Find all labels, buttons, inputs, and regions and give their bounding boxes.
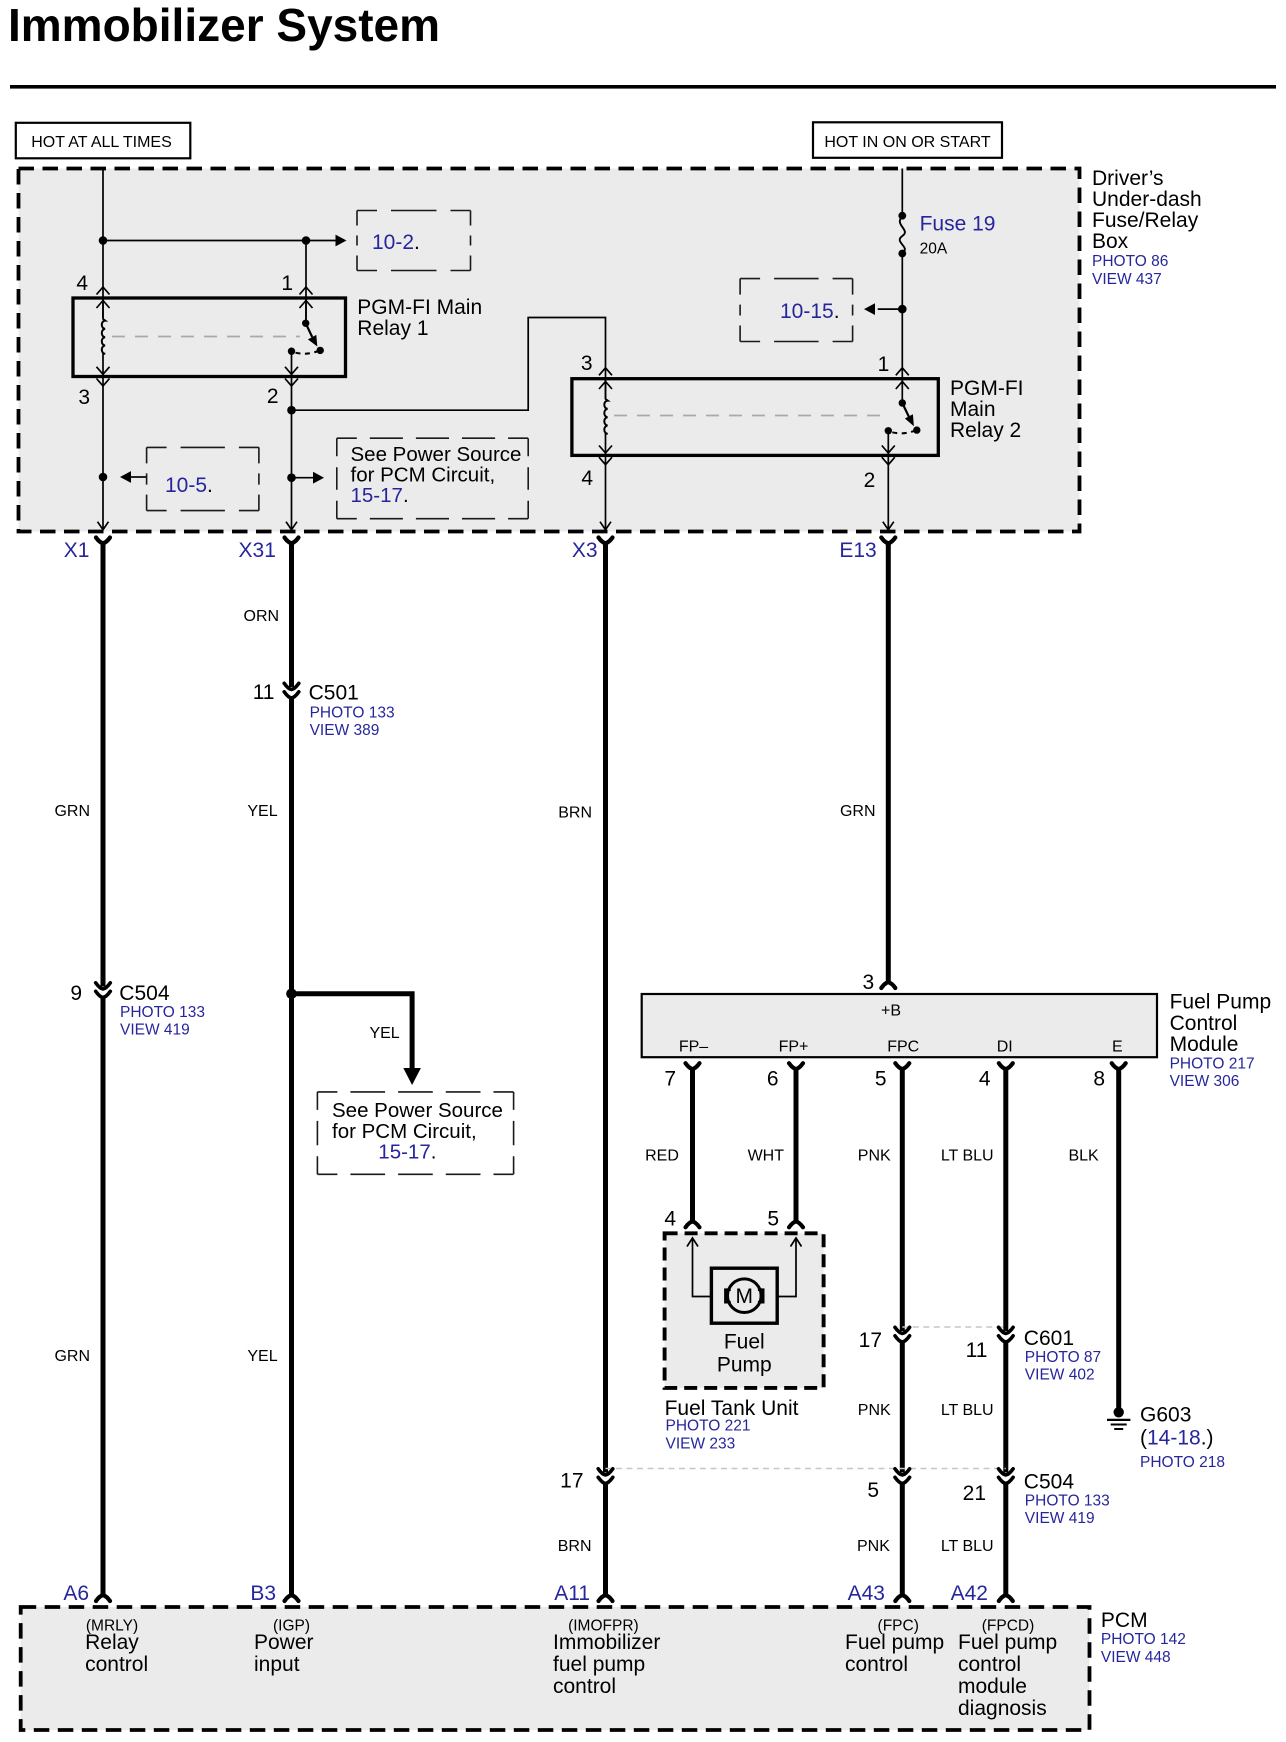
PCM pin (IMOFPR) Immobilizer fuel pump control	[553, 1618, 660, 1699]
svg-text:YEL: YEL	[247, 803, 277, 820]
svg-text:E13: E13	[839, 539, 876, 562]
title rule	[10, 85, 1276, 89]
fuse/relay box name label	[1092, 167, 1202, 288]
svg-text:module: module	[958, 1675, 1027, 1698]
svg-text:4: 4	[76, 272, 88, 295]
svg-text:1: 1	[281, 272, 293, 295]
svg-text:Relay: Relay	[85, 1631, 139, 1654]
svg-text:(14-18.): (14-18.)	[1140, 1427, 1214, 1450]
svg-text:GRN: GRN	[54, 1348, 90, 1365]
relay 2 coil feed wires	[605, 379, 607, 400]
svg-text:21: 21	[963, 1482, 986, 1505]
svg-text:VIEW 419: VIEW 419	[1025, 1510, 1095, 1527]
svg-text:YEL: YEL	[247, 1348, 277, 1365]
node label HOT AT ALL TIMES	[16, 123, 191, 159]
svg-text:BRN: BRN	[558, 805, 592, 822]
svg-text:9: 9	[70, 982, 82, 1005]
svg-text:Immobilizer: Immobilizer	[553, 1631, 660, 1654]
PCM pin (FPCD) Fuel pump control module diagnosis	[958, 1618, 1057, 1721]
svg-text:HOT AT ALL TIMES: HOT AT ALL TIMES	[31, 134, 172, 151]
relay 2 mechanical link (dashed)	[614, 415, 884, 417]
svg-text:VIEW 419: VIEW 419	[120, 1022, 190, 1039]
tank pin 5 male arrow	[791, 1238, 802, 1247]
node junction dot for 10-5 branch	[99, 473, 108, 482]
svg-text:Fuel: Fuel	[724, 1331, 765, 1354]
svg-text:GRN: GRN	[54, 803, 90, 820]
svg-text:DI: DI	[997, 1039, 1013, 1056]
connector C504 labels	[119, 982, 205, 1039]
ground G603 labels	[1140, 1404, 1225, 1472]
wire: C501 down to B3 (YEL)	[289, 696, 294, 1597]
arrow into See Power Source box (lower)	[403, 1068, 421, 1085]
connector C504 chevrons on IMOFPR wire	[598, 1469, 613, 1484]
relay 2 pin 1 connector chevrons	[896, 368, 909, 389]
svg-text:VIEW 437: VIEW 437	[1092, 271, 1162, 288]
svg-text:C601: C601	[1024, 1327, 1074, 1350]
relay 1 name label	[357, 296, 482, 340]
svg-text:Pump: Pump	[717, 1353, 772, 1376]
svg-text:Power: Power	[254, 1631, 314, 1654]
connector C601 labels	[1024, 1327, 1101, 1384]
svg-text:PHOTO 221: PHOTO 221	[666, 1418, 751, 1435]
fuel pump label	[717, 1331, 772, 1377]
wire: fuse to relay 2 pin 1	[901, 254, 903, 379]
svg-text:PHOTO 86: PHOTO 86	[1092, 253, 1168, 270]
svg-text:5: 5	[867, 1479, 879, 1502]
wire: branch to page ref 10-2	[103, 240, 336, 242]
svg-text:3: 3	[78, 386, 90, 409]
wire: X31 to C501 (ORN)	[289, 542, 294, 688]
svg-text:control: control	[553, 1675, 616, 1698]
svg-text:ORN: ORN	[244, 608, 280, 625]
component: PCM enclosure	[21, 1607, 1090, 1730]
svg-text:6: 6	[767, 1068, 779, 1091]
svg-text:for PCM Circuit,: for PCM Circuit,	[332, 1120, 477, 1143]
Driver's Under-dash Fuse/Relay Box (dashed enclosure)	[19, 169, 1080, 532]
svg-text:17: 17	[859, 1329, 882, 1352]
wire: E13 down to fuel pump control module +B (GRN)	[886, 542, 891, 983]
svg-text:PCM: PCM	[1101, 1609, 1148, 1632]
svg-text:2: 2	[267, 385, 279, 408]
op: PGM-FI Main Relay 1 body	[73, 298, 346, 377]
svg-text:FP–: FP–	[679, 1039, 708, 1056]
svg-text:control: control	[85, 1653, 148, 1676]
svg-text:PHOTO 218: PHOTO 218	[1140, 1454, 1225, 1471]
svg-text:Fuse 19: Fuse 19	[920, 213, 996, 236]
svg-text:C501: C501	[309, 682, 359, 705]
svg-text:15-17.: 15-17.	[378, 1141, 436, 1164]
fork connector at tank pin 4	[686, 1222, 700, 1228]
node junction dot relay1 pin2 to relay2 coil	[287, 406, 296, 415]
svg-text:WHT: WHT	[748, 1148, 785, 1165]
svg-text:10-15.: 10-15.	[780, 300, 840, 323]
svg-text:20A: 20A	[920, 241, 948, 258]
svg-text:PHOTO 87: PHOTO 87	[1025, 1349, 1101, 1366]
svg-text:VIEW 306: VIEW 306	[1170, 1073, 1240, 1090]
svg-text:BLK: BLK	[1068, 1148, 1099, 1165]
PCM pin (MRLY) Relay control	[85, 1618, 148, 1677]
wire: tank pin 4 to motor	[693, 1239, 727, 1297]
tank pin 4 male arrow	[687, 1238, 698, 1247]
fork connectors below module pins	[686, 1063, 700, 1069]
svg-text:LT BLU: LT BLU	[941, 1538, 994, 1555]
svg-text:4: 4	[979, 1068, 991, 1091]
svg-text:Driver’s: Driver’s	[1092, 167, 1164, 190]
svg-text:FP+: FP+	[779, 1039, 809, 1056]
node junction dot on feed	[99, 236, 108, 245]
svg-text:+B: +B	[881, 1003, 901, 1020]
svg-text:E: E	[1112, 1039, 1123, 1056]
node junction dot above relay 1 pin 1	[302, 236, 311, 245]
svg-text:Relay 2: Relay 2	[950, 419, 1021, 442]
svg-text:G603: G603	[1140, 1404, 1191, 1427]
node junction dot YEL branch	[286, 989, 297, 1000]
svg-text:PGM-FI: PGM-FI	[950, 377, 1024, 400]
svg-text:VIEW 402: VIEW 402	[1025, 1367, 1095, 1384]
svg-text:PNK: PNK	[858, 1148, 891, 1165]
svg-text:HOT IN ON OR START: HOT IN ON OR START	[824, 134, 990, 151]
op: Fuel Pump Control Module body	[642, 994, 1157, 1057]
svg-text:fuel pump: fuel pump	[553, 1653, 645, 1676]
svg-text:15-17.: 15-17.	[351, 484, 409, 507]
svg-text:Fuse/Relay: Fuse/Relay	[1092, 209, 1199, 232]
svg-text:10-2.: 10-2.	[372, 231, 420, 254]
page ref box 10-2	[357, 211, 471, 271]
svg-text:8: 8	[1093, 1068, 1105, 1091]
wire: 10-2 junction down to relay 1 pin 1	[305, 241, 307, 324]
wire: FPC down to C601 (PNK)	[900, 1068, 905, 1332]
svg-text:A42: A42	[951, 1582, 988, 1605]
svg-text:diagnosis: diagnosis	[958, 1697, 1047, 1720]
op: PGM-FI Main Relay 2 body	[572, 379, 938, 456]
svg-text:7: 7	[664, 1068, 676, 1091]
ground G603	[1107, 1407, 1130, 1429]
svg-text:A6: A6	[63, 1582, 89, 1605]
relay 2 switch	[885, 379, 921, 456]
svg-text:VIEW 389: VIEW 389	[310, 722, 380, 739]
node junction dot for 10-15 branch	[898, 305, 907, 314]
relay 1 switch	[288, 298, 324, 377]
svg-text:Fuel pump: Fuel pump	[845, 1631, 944, 1654]
svg-text:A11: A11	[554, 1582, 590, 1605]
wire: C504 to A42 (LT BLU)	[1003, 1482, 1008, 1597]
svg-text:11: 11	[253, 681, 275, 704]
svg-text:RED: RED	[645, 1148, 679, 1165]
relay 1 mechanical link (dashed)	[112, 336, 300, 338]
svg-text:Under-dash: Under-dash	[1092, 188, 1202, 211]
svg-text:Relay 1: Relay 1	[357, 317, 428, 340]
relay 2 name label	[950, 377, 1024, 442]
connector C601 chevrons on FPC wire	[895, 1327, 910, 1342]
svg-text:VIEW 448: VIEW 448	[1101, 1649, 1171, 1666]
connector C601 link line	[902, 1326, 1006, 1328]
svg-text:See Power Source: See Power Source	[332, 1099, 503, 1122]
fuel tank unit labels	[665, 1397, 799, 1453]
svg-text:PNK: PNK	[858, 1402, 891, 1419]
wire: DI down to C601 (LT BLU)	[1003, 1068, 1008, 1332]
svg-text:17: 17	[560, 1470, 583, 1493]
svg-text:3: 3	[581, 352, 593, 375]
svg-text:FPC: FPC	[887, 1039, 919, 1056]
wire: hot-in-on-or-start feed down to fuse 19	[901, 169, 903, 217]
arrow from 10-5 box	[120, 471, 131, 483]
wire: relay 1 pin 3 down to X1 exit	[102, 386, 104, 530]
svg-text:control: control	[958, 1653, 1021, 1676]
svg-text:PGM-FI Main: PGM-FI Main	[357, 296, 482, 319]
exit arrows at box bottom border	[98, 522, 109, 530]
svg-text:PHOTO 142: PHOTO 142	[1101, 1631, 1186, 1648]
svg-text:X3: X3	[572, 539, 598, 562]
svg-text:2: 2	[864, 469, 876, 492]
wire: relay 2 pin 2 down to E13 exit	[887, 455, 889, 529]
connector C504 inline chevrons on X1 wire	[96, 983, 111, 998]
pin 4 connector chevrons	[97, 287, 110, 308]
arrow from wire into 10-15 box	[878, 308, 903, 310]
svg-text:LT BLU: LT BLU	[941, 1402, 994, 1419]
PCM pin (IGP) Power input	[254, 1618, 314, 1677]
svg-text:control: control	[845, 1653, 908, 1676]
wire: tank pin 5 to motor	[763, 1239, 797, 1297]
svg-text:Fuel Pump: Fuel Pump	[1170, 991, 1272, 1014]
svg-text:4: 4	[581, 467, 593, 490]
arrow into 10-2 box	[336, 235, 347, 247]
svg-text:C504: C504	[119, 982, 170, 1005]
svg-text:PHOTO 133: PHOTO 133	[1025, 1493, 1110, 1510]
svg-text:Main: Main	[950, 398, 996, 421]
motor M1 fuel pump	[711, 1268, 777, 1323]
fuse F19	[898, 212, 906, 258]
relay 2 pin 3 connector chevrons	[599, 368, 612, 389]
wire: hot-at-all-times feed down to relay 1 pin 4	[102, 169, 104, 319]
module name label	[1170, 991, 1272, 1091]
relay 2 pin 2 connector chevrons	[882, 446, 895, 465]
wire: C601 to C504 on FPC (PNK)	[900, 1340, 905, 1473]
svg-text:VIEW 233: VIEW 233	[666, 1436, 736, 1453]
connector C601 chevrons on DI wire	[999, 1327, 1014, 1342]
svg-text:PHOTO 217: PHOTO 217	[1170, 1056, 1255, 1073]
wire: FP- to fuel pump pin 4 (RED)	[690, 1068, 695, 1223]
svg-text:PHOTO 133: PHOTO 133	[310, 705, 395, 722]
svg-text:input: input	[254, 1653, 300, 1676]
connector C501 labels	[309, 682, 395, 740]
wire: X1 to C504 (GRN)	[101, 542, 106, 987]
wire: C504 to A11 (BRN)	[603, 1482, 608, 1597]
svg-text:M: M	[736, 1285, 754, 1308]
svg-text:PHOTO 133: PHOTO 133	[120, 1004, 205, 1021]
ref box: See Power Source for PCM Circuit 15-17 (lower)	[317, 1092, 513, 1174]
wire: C601 to C504 on DI (LT BLU)	[1003, 1340, 1008, 1473]
pin 1 connector chevrons	[300, 287, 313, 308]
arrow into See Power Source box	[292, 477, 314, 479]
fork connector at tank pin 5	[789, 1222, 803, 1228]
fork connectors below box exits	[96, 538, 110, 544]
relay 1 coil feed wires	[102, 298, 104, 320]
relay 1 coil L	[102, 319, 105, 354]
svg-text:X1: X1	[64, 539, 90, 562]
relay 2 pin 4 connector chevrons	[599, 446, 612, 465]
svg-text:A43: A43	[848, 1582, 885, 1605]
connector C501 inline chevrons	[284, 683, 299, 698]
svg-text:Control: Control	[1170, 1012, 1238, 1035]
svg-text:C504: C504	[1024, 1471, 1075, 1494]
connector C504 row link line	[606, 1468, 1006, 1470]
wire: E down to ground (BLK)	[1116, 1068, 1121, 1409]
wire: C504 to A43 (PNK)	[900, 1482, 905, 1597]
ref box: See Power Source for PCM Circuit 15-17 (upper)	[337, 438, 528, 519]
PCM pin (FPC) Fuel pump control	[845, 1618, 944, 1677]
svg-text:X31: X31	[239, 539, 276, 562]
wire: relay 1 pin 2 down to X31 exit	[291, 377, 293, 530]
page ref box 10-15	[740, 279, 853, 342]
svg-text:1: 1	[878, 353, 890, 376]
pin 3 connector chevrons	[97, 367, 110, 386]
svg-text:BRN: BRN	[558, 1538, 592, 1555]
relay 2 coil L	[604, 399, 607, 434]
svg-text:GRN: GRN	[840, 803, 876, 820]
svg-text:10-5.: 10-5.	[165, 474, 213, 497]
fork connector into module +B	[881, 982, 895, 988]
svg-text:Fuel pump: Fuel pump	[958, 1631, 1057, 1654]
pin 2 connector chevrons	[285, 367, 298, 386]
svg-text:YEL: YEL	[369, 1025, 399, 1042]
connector C504 chevrons on FPC wire	[895, 1469, 910, 1484]
svg-text:B3: B3	[250, 1582, 276, 1605]
svg-text:Immobilizer System: Immobilizer System	[8, 0, 440, 51]
connector C504 labels (lower)	[1024, 1471, 1110, 1528]
wire: X3 down to C504 row (BRN)	[603, 542, 608, 1473]
wire: relay1 pin2 across and up to relay 2 pin 3	[292, 318, 606, 411]
node label HOT IN ON OR START	[813, 122, 1002, 158]
PCM name label	[1101, 1609, 1186, 1666]
page ref box 10-5	[147, 447, 259, 510]
wire: YEL branch to See Power Source ref	[292, 994, 413, 1068]
wire: C504 to A6 (GRN)	[101, 996, 106, 1597]
svg-text:11: 11	[966, 1339, 988, 1362]
svg-text:PNK: PNK	[857, 1538, 890, 1555]
node junction dot for See Power Source branch	[287, 473, 296, 482]
component: Fuel Tank Unit enclosure	[665, 1233, 824, 1388]
connector C504 chevrons on FPCD wire	[999, 1469, 1014, 1484]
svg-text:5: 5	[875, 1068, 887, 1091]
svg-text:3: 3	[863, 971, 875, 994]
svg-text:Box: Box	[1092, 230, 1129, 253]
svg-text:4: 4	[664, 1208, 676, 1231]
wire: relay 2 pin 4 down to X3 exit	[605, 455, 607, 529]
svg-text:5: 5	[767, 1208, 779, 1231]
svg-text:LT BLU: LT BLU	[941, 1148, 994, 1165]
svg-text:Module: Module	[1170, 1033, 1239, 1056]
wire: FP+ to fuel pump pin 5 (WHT)	[794, 1068, 799, 1223]
fork connectors into PCM	[96, 1595, 110, 1601]
